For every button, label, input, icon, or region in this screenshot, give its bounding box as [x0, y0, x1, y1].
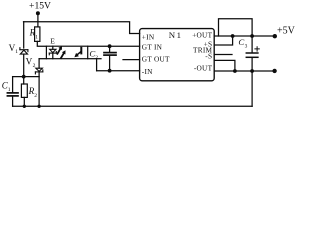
zener V1 — [20, 48, 28, 54]
wire +15V down to R1 — [37, 13, 39, 27]
C3 vertical to bottom rail — [251, 71, 253, 106]
svg-text:3: 3 — [245, 43, 248, 49]
svg-text:GT OUT: GT OUT — [142, 55, 170, 64]
svg-text:-S: -S — [205, 51, 212, 60]
wire emitter down to -IN run — [96, 59, 98, 71]
svg-text:2: 2 — [33, 63, 36, 69]
svg-text:1: 1 — [35, 34, 38, 40]
zener V2 — [38, 59, 40, 68]
output terminal dot — [272, 69, 276, 73]
+15V terminal dot — [36, 11, 40, 15]
junction dot cap C2 bottom — [108, 69, 112, 73]
svg-text:1: 1 — [177, 30, 181, 40]
C3 polarity plus — [255, 47, 259, 51]
capacitor C2 (middle) — [109, 46, 111, 52]
junction dot -S/-OUT — [233, 69, 237, 73]
junction dot R2 / bottom rail — [23, 105, 26, 108]
sense loop rail — [219, 19, 253, 36]
-OUT wire to output terminal — [214, 70, 273, 72]
capacitor C1 — [12, 77, 14, 93]
junction dot C3 / -OUT — [250, 69, 254, 73]
svg-text:N: N — [169, 30, 176, 40]
svg-text:V: V — [26, 56, 33, 66]
wire to -IN — [97, 70, 140, 72]
junction dot +OUT/loop — [250, 34, 254, 38]
bottom rail — [13, 105, 253, 107]
+S stub and vertical — [214, 36, 232, 45]
TRIM stub — [214, 54, 232, 56]
svg-text:+15V: +15V — [29, 0, 51, 11]
+OUT wire to +5V terminal — [214, 35, 273, 37]
svg-text:E: E — [50, 37, 55, 46]
resistor R1 — [35, 27, 40, 42]
svg-text:1: 1 — [15, 49, 18, 55]
wire W1 horizontal — [13, 76, 39, 78]
junction dot left rail / W1 — [22, 75, 26, 79]
svg-text:C: C — [238, 37, 244, 47]
svg-text:+IN: +IN — [142, 33, 155, 42]
svg-text:-OUT: -OUT — [194, 64, 213, 73]
wire opto emitter — [88, 58, 101, 60]
left rail down to V1 — [23, 22, 25, 48]
svg-text:1: 1 — [8, 87, 11, 93]
wire opto collector to GT IN — [88, 45, 140, 47]
left rail below V1 — [23, 54, 25, 84]
+5V terminal dot — [273, 34, 277, 38]
LED light arrows — [57, 49, 63, 58]
junction dot cap C2 top — [108, 44, 112, 48]
GT OUT stub — [123, 59, 140, 61]
LED inside opto — [52, 46, 54, 49]
svg-text:GT IN: GT IN — [142, 43, 163, 52]
top rail to +IN — [24, 22, 140, 34]
svg-text:-IN: -IN — [142, 67, 153, 76]
junction dot +S/+OUT — [231, 34, 235, 38]
junction dot V2 / bottom rail — [37, 105, 40, 108]
phototransistor — [80, 48, 82, 54]
svg-text:+OUT: +OUT — [192, 31, 212, 40]
svg-text:2: 2 — [34, 93, 37, 99]
wire R1 to opto box — [37, 41, 46, 46]
-S stub — [214, 60, 235, 71]
resistor R2 — [21, 84, 27, 97]
IC N1 box — [140, 29, 215, 81]
wire V2 to opto box — [39, 58, 46, 60]
capacitor C3 (output) — [251, 36, 253, 52]
optocoupler box E — [46, 46, 87, 59]
svg-text:+5V: +5V — [277, 26, 295, 37]
